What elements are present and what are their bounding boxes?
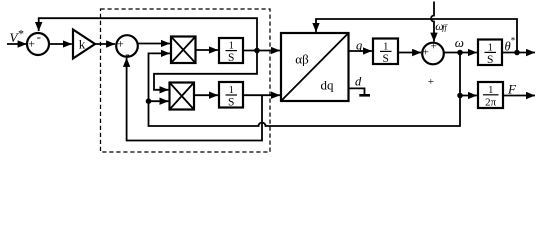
wire: d output stub	[349, 88, 365, 94]
multiplier M2	[170, 83, 195, 110]
wire: I2 feedback to S2 minus	[127, 58, 262, 141]
wire: branch to 1/2pi block	[460, 95, 477, 97]
svg-text:+: +	[28, 37, 35, 51]
svg-text:αβ: αβ	[295, 52, 309, 67]
integrator I3	[373, 39, 398, 65]
integrator I4	[478, 40, 502, 66]
wire: omega feedback to multipliers (with hop)	[149, 53, 461, 127]
integrator I1	[219, 38, 243, 63]
multiplier M1	[171, 37, 196, 64]
summing junction S2	[116, 35, 138, 57]
svg-text:-: -	[37, 29, 41, 44]
node: omega junction	[457, 50, 463, 56]
svg-text:2π: 2π	[485, 96, 497, 108]
summing junction S3	[422, 43, 444, 65]
svg-text:*: *	[18, 27, 24, 41]
wire: F output	[503, 95, 535, 97]
svg-text:S: S	[487, 54, 493, 66]
svg-text:S: S	[382, 53, 388, 65]
svg-text:dq: dq	[321, 78, 335, 93]
node: 1/2pi branch	[457, 93, 463, 99]
node: theta junction	[514, 50, 520, 56]
svg-text:S: S	[228, 52, 234, 64]
wire: S1 to gain k	[49, 43, 72, 45]
block 1/2pi	[478, 82, 503, 108]
summing junction S1	[27, 33, 49, 55]
svg-text:+: +	[117, 37, 124, 51]
svg-text:+: +	[431, 40, 437, 52]
wire: gain to S2	[95, 43, 115, 45]
wire: S2 to multiplier M1	[138, 43, 170, 45]
termination bar	[359, 94, 370, 97]
wire: I2 output to transform block	[243, 94, 280, 96]
wire: cross coupling I1 to M2	[154, 51, 257, 90]
svg-text:1: 1	[383, 41, 388, 52]
wire: S3 to integrator I4	[444, 52, 477, 54]
wire: q output to integrator I3	[349, 50, 372, 52]
label theta estimate	[505, 36, 516, 54]
label omega_ff	[435, 19, 448, 33]
node: omega feedback branch	[146, 98, 152, 104]
wire: M1 to integrator I1	[196, 49, 218, 51]
wire: I3 to S3	[398, 52, 421, 54]
svg-text:1: 1	[488, 42, 493, 53]
wire: theta output	[502, 52, 535, 54]
label V*	[10, 27, 25, 46]
svg-text:ω: ω	[455, 35, 464, 50]
wire: top feedback (I1 output to S1 minus)	[39, 18, 257, 50]
dashed estimator box	[101, 9, 271, 152]
transform block αβ/dq	[281, 33, 349, 101]
wire: theta feedback to transform top	[316, 19, 517, 53]
svg-text:1: 1	[229, 41, 234, 52]
svg-text:k: k	[79, 37, 86, 52]
wire: omega_ff input (hops feedback line)	[431, 2, 434, 42]
svg-text:*: *	[511, 36, 516, 46]
svg-text:1: 1	[229, 85, 234, 96]
svg-text:θ: θ	[505, 40, 511, 54]
svg-text:d: d	[355, 75, 362, 89]
wire: branch to M2 lower input	[149, 100, 169, 102]
wire: M2 to integrator I2	[194, 94, 218, 96]
svg-text:1: 1	[488, 85, 493, 96]
node: I1 output junction	[254, 48, 260, 54]
integrator I2	[219, 82, 243, 108]
svg-text:F: F	[507, 82, 517, 97]
wire: V* input	[7, 43, 27, 45]
svg-text:S: S	[228, 96, 234, 108]
wire: I1 output to transform block	[243, 50, 280, 52]
svg-text:+: +	[428, 76, 434, 88]
gain k	[73, 30, 95, 59]
svg-text:+: +	[423, 47, 429, 59]
svg-text:ff: ff	[442, 23, 448, 32]
